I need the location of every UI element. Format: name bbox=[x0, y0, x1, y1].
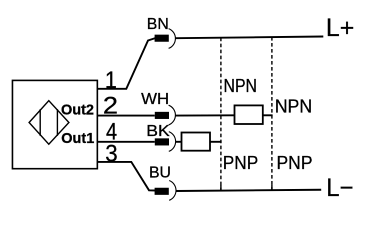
connector ferrule BN bbox=[155, 35, 169, 42]
wire L- rail bbox=[176, 190, 321, 191]
svg-text:BN: BN bbox=[147, 16, 169, 33]
PNP load resistor box bbox=[182, 133, 211, 151]
wire pin2 to NPN load bbox=[175, 114, 234, 116]
NPN load resistor box bbox=[235, 105, 263, 124]
svg-text:3: 3 bbox=[105, 140, 117, 167]
dashed rail 1 bbox=[220, 38, 222, 190]
svg-text:Out1: Out1 bbox=[61, 131, 94, 147]
connector socket arc WH bbox=[169, 105, 176, 125]
connector socket arc BK bbox=[169, 132, 176, 152]
wire pin1 stub bbox=[97, 38, 156, 89]
dashed rail 1 end tick bbox=[220, 185, 222, 190]
dashed rail 2 bbox=[271, 37, 273, 190]
svg-text:1: 1 bbox=[105, 67, 117, 94]
wire pin3 stub bbox=[97, 162, 156, 191]
connector socket arc BU bbox=[169, 181, 176, 201]
wire BK arc to PNP load bbox=[176, 141, 182, 143]
svg-text:BK: BK bbox=[146, 123, 170, 140]
svg-text:PNP: PNP bbox=[277, 153, 313, 174]
diamond inner line left bbox=[39, 109, 41, 136]
svg-text:L+: L+ bbox=[326, 14, 354, 42]
dashed rail 2 end tick bbox=[271, 185, 273, 190]
svg-text:BU: BU bbox=[149, 165, 171, 182]
svg-text:NPN: NPN bbox=[224, 76, 258, 97]
svg-text:PNP: PNP bbox=[223, 153, 258, 174]
diamond inner line right bbox=[56, 109, 58, 136]
sensor symbol (diamond) bbox=[29, 101, 69, 145]
connector ferrule BU bbox=[155, 188, 169, 195]
wire PNP load to dashed rail 1 bbox=[210, 141, 222, 143]
wire pin4 to connector bbox=[97, 141, 155, 143]
sensor box bbox=[12, 80, 97, 168]
wire L+ rail bbox=[175, 37, 323, 39]
connector ferrule WH bbox=[155, 112, 169, 119]
svg-text:WH: WH bbox=[141, 91, 169, 108]
connector socket arc BN bbox=[169, 29, 176, 49]
wire NPN load to dashed rail 2 bbox=[263, 114, 273, 116]
svg-text:NPN: NPN bbox=[275, 97, 313, 118]
connector ferrule BK bbox=[155, 138, 169, 145]
svg-text:Out2: Out2 bbox=[61, 103, 94, 119]
wire pin2 to connector bbox=[97, 115, 155, 117]
svg-text:L−: L− bbox=[326, 174, 353, 202]
